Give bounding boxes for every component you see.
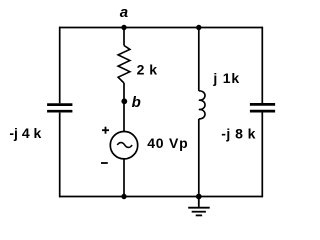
- svg-text:j 1k: j 1k: [212, 70, 240, 86]
- svg-text:40 Vp: 40 Vp: [147, 135, 188, 151]
- svg-text:a: a: [120, 4, 128, 21]
- svg-text:-j 8 k: -j 8 k: [221, 126, 256, 142]
- svg-text:b: b: [132, 94, 141, 111]
- svg-text:2 k: 2 k: [137, 62, 158, 78]
- svg-text:-j 4 k: -j 4 k: [9, 125, 41, 141]
